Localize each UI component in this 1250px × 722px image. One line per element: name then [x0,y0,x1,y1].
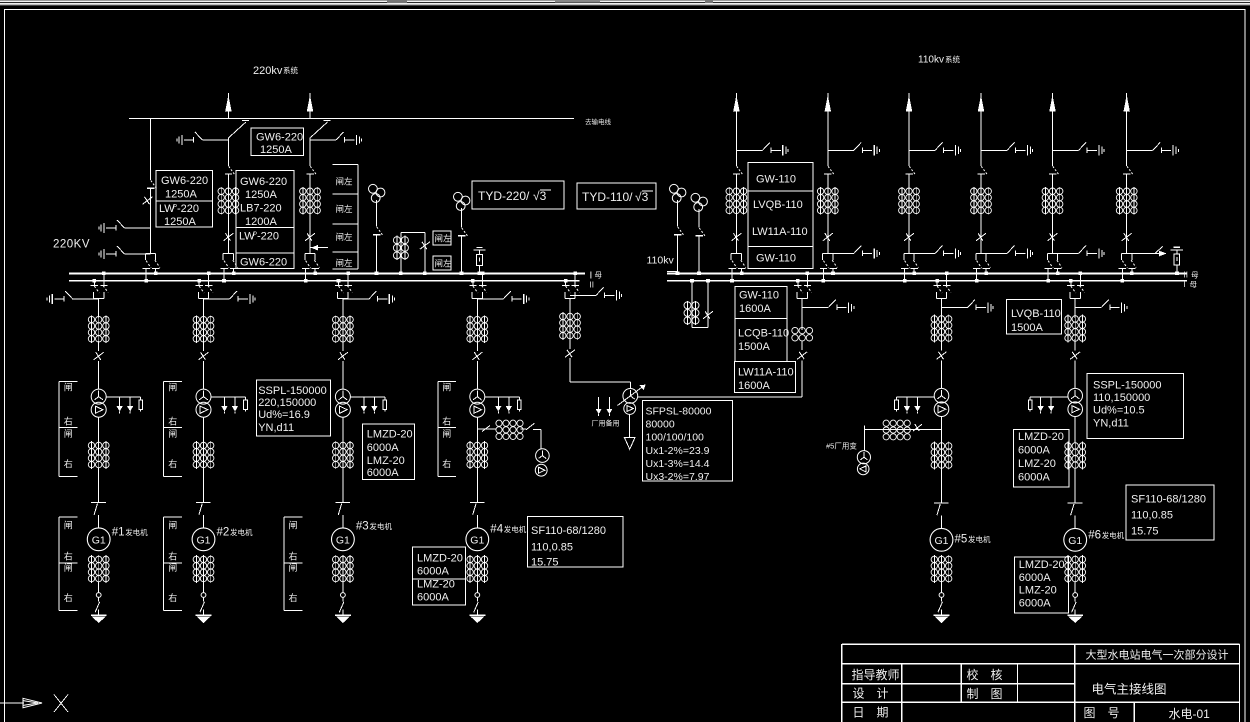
svg-text:制 图: 制 图 [967,687,1003,701]
svg-text:-220: -220 [177,203,199,215]
svg-text:系统: 系统 [945,54,960,64]
svg-text:厂用备用: 厂用备用 [592,419,620,428]
svg-text:YN,d11: YN,d11 [1093,418,1129,430]
svg-text:6000A: 6000A [367,442,399,454]
svg-text:SSPL-150000: SSPL-150000 [1093,380,1162,392]
svg-text:G1: G1 [92,534,106,546]
svg-text:6000A: 6000A [1018,445,1050,457]
svg-text:G1: G1 [336,534,350,546]
svg-text:LVQB-110: LVQB-110 [753,199,803,211]
svg-text:#2: #2 [217,527,230,539]
svg-text:图 号: 图 号 [1084,706,1120,720]
svg-text:LMZ-20: LMZ-20 [1019,585,1057,597]
svg-text:右: 右 [64,416,73,427]
svg-text:电气主接线图: 电气主接线图 [1092,682,1167,697]
svg-text:闸: 闸 [64,521,73,531]
svg-text:LMZ-20: LMZ-20 [1018,458,1056,470]
svg-text:√3: √3 [533,189,547,203]
svg-text:闸: 闸 [168,563,177,573]
svg-text:-220: -220 [257,231,279,243]
svg-text:220KV: 220KV [53,239,90,251]
svg-text:LW11A-110: LW11A-110 [752,226,808,238]
svg-text:110kv: 110kv [918,55,944,66]
svg-text:G1: G1 [470,534,484,546]
svg-text:6000A: 6000A [1019,598,1051,610]
svg-text:闸: 闸 [289,521,298,531]
svg-text:#6: #6 [1088,530,1101,542]
svg-text:发电机: 发电机 [1102,530,1125,540]
svg-text:80000: 80000 [646,419,675,431]
svg-text:6000A: 6000A [417,565,449,577]
svg-text:发电机: 发电机 [968,534,991,544]
svg-text:TYD-110/: TYD-110/ [582,190,633,204]
svg-text:1250A: 1250A [245,189,277,201]
svg-text:闸左: 闸左 [336,258,354,268]
svg-text:系统: 系统 [283,65,298,75]
svg-text:右: 右 [168,551,177,562]
svg-text:Ux1-3%=14.4: Ux1-3%=14.4 [646,458,710,470]
svg-text:右: 右 [64,592,73,603]
svg-text:发电机: 发电机 [504,524,527,534]
svg-text:LMZD-20: LMZD-20 [1018,431,1064,443]
svg-text:SF110-68/1280: SF110-68/1280 [531,525,606,537]
svg-text:LMZD-20: LMZD-20 [417,553,463,565]
svg-text:#1: #1 [112,527,125,539]
svg-text:闸左: 闸左 [336,177,354,187]
svg-text:LCQB-110: LCQB-110 [738,328,789,340]
svg-text:右: 右 [64,458,73,469]
svg-text:110,0.85: 110,0.85 [531,542,573,554]
svg-text:母: 母 [1190,280,1198,289]
svg-text:闸: 闸 [168,521,177,531]
svg-text:220kv: 220kv [253,65,283,77]
svg-text:闸: 闸 [64,563,73,573]
svg-text:LMZD-20: LMZD-20 [367,428,413,440]
svg-text:Ux1-2%=23.9: Ux1-2%=23.9 [646,445,710,457]
svg-text:15.75: 15.75 [531,557,559,569]
svg-text:右: 右 [289,592,298,603]
svg-text:闸: 闸 [64,429,73,439]
svg-text:闸左: 闸左 [336,232,354,242]
svg-text:YN,d11: YN,d11 [258,422,294,434]
svg-text:LB7-220: LB7-220 [240,203,282,215]
svg-text:#5厂用变: #5厂用变 [826,441,857,451]
svg-text:右: 右 [442,458,451,469]
svg-text:GW6-220: GW6-220 [240,176,287,188]
svg-text:1200A: 1200A [245,216,277,228]
svg-text:6000A: 6000A [417,592,449,604]
svg-text:右: 右 [168,416,177,427]
svg-text:GW6-220: GW6-220 [240,257,287,269]
svg-text:设 计: 设 计 [853,687,889,701]
svg-text:100/100/100: 100/100/100 [646,432,705,444]
svg-text:右: 右 [289,551,298,562]
svg-text:110kv: 110kv [647,255,675,267]
svg-text:母: 母 [1191,271,1199,280]
svg-text:I: I [1184,280,1186,289]
svg-text:SSPL-150000: SSPL-150000 [258,385,327,397]
svg-text:校 核: 校 核 [967,667,1003,682]
svg-text:II: II [1184,271,1188,280]
svg-text:G1: G1 [934,535,948,547]
svg-text:G1: G1 [1068,535,1082,547]
svg-text:闸: 闸 [64,383,73,393]
svg-text:闸左: 闸左 [435,259,453,269]
svg-text:GW-110: GW-110 [756,174,796,186]
svg-text:6000A: 6000A [367,467,399,479]
svg-text:LMZ-20: LMZ-20 [367,455,405,467]
svg-text:1600A: 1600A [738,380,770,392]
svg-text:1250A: 1250A [164,216,196,228]
svg-text:闸左: 闸左 [336,204,354,214]
svg-text:水电-01: 水电-01 [1169,707,1211,721]
svg-text:右: 右 [442,416,451,427]
svg-text:GW6-220: GW6-220 [161,175,208,187]
svg-text:右: 右 [168,592,177,603]
svg-text:1250A: 1250A [165,189,197,201]
svg-text:SF110-68/1280: SF110-68/1280 [1131,494,1206,506]
svg-text:15.75: 15.75 [1131,526,1159,538]
svg-text:发电机: 发电机 [369,521,392,531]
svg-text:G1: G1 [196,534,210,546]
svg-text:闸: 闸 [442,383,451,393]
svg-text:LVQB-110: LVQB-110 [1011,308,1061,320]
svg-text:右: 右 [168,458,177,469]
svg-text:110,150000: 110,150000 [1093,392,1150,404]
svg-text:GW6-220: GW6-220 [256,132,303,144]
svg-text:1600A: 1600A [739,303,771,315]
svg-text:闸: 闸 [442,429,451,439]
svg-text:LMZ-20: LMZ-20 [417,579,455,591]
svg-text:6000A: 6000A [1018,472,1050,484]
svg-text:II: II [590,281,594,290]
svg-text:#3: #3 [356,521,369,533]
svg-text:110,0.85: 110,0.85 [1131,510,1173,522]
svg-text:Ud%=16.9: Ud%=16.9 [258,409,310,421]
svg-text:GW-110: GW-110 [756,253,796,265]
svg-text:右: 右 [64,551,73,562]
svg-text:闸: 闸 [289,563,298,573]
svg-text:闸: 闸 [168,429,177,439]
svg-text:1250A: 1250A [260,144,292,156]
svg-text:闸左: 闸左 [435,234,453,244]
svg-text:220,150000: 220,150000 [258,397,316,409]
svg-text:SFPSL-80000: SFPSL-80000 [646,406,712,418]
svg-text:母: 母 [595,271,603,280]
svg-text:#4: #4 [490,524,503,536]
svg-text:1500A: 1500A [1011,322,1043,334]
svg-text:Ud%=10.5: Ud%=10.5 [1093,405,1145,417]
svg-text:#5: #5 [955,534,968,546]
svg-text:6000A: 6000A [1019,572,1051,584]
svg-text:LMZD-20: LMZD-20 [1019,559,1065,571]
svg-text:指导教师: 指导教师 [852,667,900,682]
svg-text:1500A: 1500A [738,341,770,353]
svg-text:GW-110: GW-110 [739,290,779,302]
svg-text:LW11A-110: LW11A-110 [738,367,794,379]
svg-text:大型水电站电气一次部分设计: 大型水电站电气一次部分设计 [1086,648,1229,662]
svg-text:去输电线: 去输电线 [585,117,612,126]
svg-text:TYD-220/: TYD-220/ [478,189,530,203]
svg-text:发电机: 发电机 [230,527,253,537]
svg-text:日 期: 日 期 [853,706,889,720]
svg-text:Ux3-2%=7.97: Ux3-2%=7.97 [646,471,710,483]
svg-text:√3: √3 [635,190,649,204]
svg-text:发电机: 发电机 [125,527,148,537]
svg-text:闸: 闸 [168,383,177,393]
